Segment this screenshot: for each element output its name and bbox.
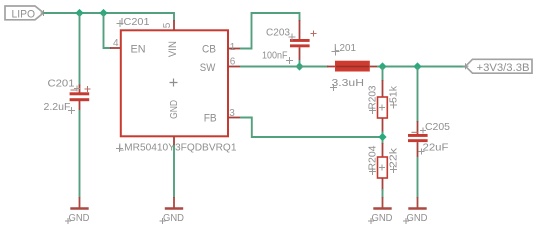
junction node FB divider tap (378, 62, 386, 70)
svg-text:100nF: 100nF (262, 50, 288, 62)
svg-text:L201: L201 (334, 42, 356, 54)
net flag LIPO (5, 6, 47, 20)
svg-text:VIN: VIN (167, 41, 179, 57)
wire L201 to +3V3 flag (377, 66, 466, 68)
label 3.3uH (330, 77, 364, 91)
svg-text:R204: R204 (366, 145, 378, 170)
wire IC GND pin to ground (173, 145, 175, 198)
ground GND under C201 (65, 197, 90, 224)
pin 3 (FB) (228, 108, 240, 119)
pin 6 (SW) (228, 57, 240, 68)
capacitor C205 (408, 121, 428, 157)
wire R203 to FB node (382, 132, 384, 145)
svg-text:LIPO: LIPO (12, 8, 36, 20)
net flag +3V3/3.3B (463, 59, 533, 74)
svg-text:GND: GND (163, 212, 184, 224)
svg-text:SW: SW (200, 62, 216, 74)
label 22k (388, 147, 400, 173)
svg-text:3: 3 (229, 108, 235, 119)
resistor R203 (378, 80, 388, 133)
pin 1 (CB) (228, 42, 240, 53)
ground GND under IC201 (160, 197, 185, 224)
IC IC201 body (121, 30, 228, 136)
svg-text:R203: R203 (366, 85, 378, 109)
capacitor C201 (70, 85, 91, 111)
svg-text:22uF: 22uF (423, 142, 449, 154)
label C203 (266, 27, 296, 41)
label C201 (48, 78, 81, 92)
svg-text:CB: CB (202, 43, 216, 55)
capacitor C203 (290, 20, 317, 60)
inductor L201 (327, 61, 378, 72)
svg-text:LMR50410Y3FQDBVRQ1: LMR50410Y3FQDBVRQ1 (119, 142, 237, 154)
wire C203 to SW node (299, 60, 301, 67)
svg-text:GND: GND (372, 212, 393, 224)
svg-text:2.2uF: 2.2uF (44, 101, 71, 113)
svg-text:C205: C205 (425, 121, 450, 133)
ground GND under C205 (403, 197, 428, 224)
svg-text:FB: FB (204, 113, 217, 125)
wire LIPO node down to EN (104, 13, 112, 48)
label L201 (332, 42, 357, 56)
svg-text:51k: 51k (388, 85, 400, 103)
wire R204 to ground (382, 189, 384, 198)
label R204 (366, 145, 378, 175)
svg-text:EN: EN (131, 43, 146, 55)
wire SW to L201 (240, 66, 328, 68)
junction node at EN branch (99, 9, 107, 17)
svg-text:GND: GND (407, 212, 428, 224)
ground GND under R204 (368, 197, 393, 224)
label 51k (388, 85, 400, 108)
wire CB bootstrap loop (240, 13, 300, 49)
resistor R204 (378, 143, 388, 191)
svg-text:22k: 22k (388, 147, 400, 168)
polarity + at IC center (170, 79, 178, 87)
svg-text:5: 5 (162, 22, 173, 28)
svg-text:GND: GND (69, 212, 90, 224)
svg-text:4: 4 (113, 38, 119, 49)
pin 5 (VIN) (162, 20, 174, 30)
svg-text:C201: C201 (48, 78, 75, 90)
svg-text:1: 1 (230, 42, 236, 53)
svg-text:C203: C203 (266, 27, 290, 39)
wire LIPO node down to C201 (79, 13, 81, 86)
label C205 (420, 121, 450, 134)
value LMR50410Y3FQDBVRQ1 (116, 142, 237, 154)
label 2.2uF (44, 101, 76, 114)
wire down to R203 (382, 67, 384, 82)
wire C201 to ground (79, 110, 81, 198)
label 22uF (419, 142, 449, 155)
junction node C205 (413, 62, 421, 70)
label IC201 (117, 16, 150, 28)
svg-text:GND: GND (168, 100, 180, 119)
svg-text:IC201: IC201 (121, 16, 150, 28)
pin 4 (EN) (110, 38, 121, 49)
label R203 (366, 85, 378, 114)
label 100nF (262, 50, 293, 65)
pin 2 (GND) (173, 136, 175, 146)
wire +3V3 node down to C205 (417, 67, 419, 123)
junction node FB (378, 133, 386, 141)
svg-text:+3V3/3.3B: +3V3/3.3B (477, 62, 530, 74)
wire FB from IC to divider (240, 118, 383, 138)
junction node SW/C203 (295, 62, 303, 70)
svg-text:6: 6 (230, 57, 236, 68)
wire VIN drop (173, 12, 175, 21)
wire LIPO to VIN (44, 12, 175, 14)
wire C205 to ground (417, 157, 419, 198)
junction node at C201 branch (75, 9, 83, 17)
